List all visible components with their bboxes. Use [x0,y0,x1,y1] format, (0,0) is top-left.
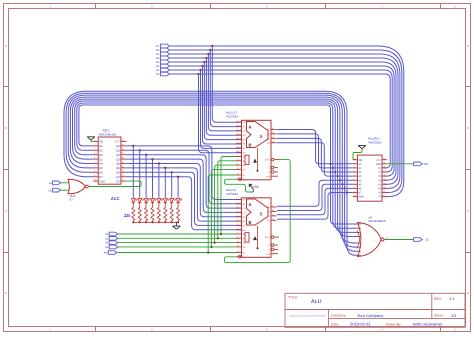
svg-text:12: 12 [237,245,239,248]
svg-text:13: 13 [237,173,239,176]
svg-text:3: 3 [354,227,355,230]
svg-text:D5: D5 [99,167,103,170]
svg-text:ALUOUT: ALUOUT [368,137,380,141]
svg-text:12: 12 [237,167,239,170]
svg-text:Your Company: Your Company [357,313,383,318]
svg-text:TITLE:: TITLE: [288,295,298,299]
svg-text:+5V: +5V [253,185,260,189]
svg-text:11: 11 [272,214,274,217]
svg-text:8: 8 [353,186,354,189]
svg-text:D2: D2 [156,65,160,68]
svg-text:S2: S2 [105,242,109,245]
svg-text:16: 16 [383,174,385,177]
svg-text:Q4: Q4 [116,163,120,166]
svg-text:1/1: 1/1 [451,314,456,318]
svg-text:D7: D7 [156,45,160,48]
wire ALUOUT OE to ground [353,149,362,160]
svg-text:D5: D5 [156,53,160,56]
wire OR gate to ACC CP [88,181,141,186]
svg-text:6: 6 [237,219,238,222]
svg-text:S1: S1 [105,237,109,240]
svg-text:4: 4 [237,133,238,136]
ALU LO 74LS181 [242,120,272,180]
svg-text:20: 20 [383,157,385,160]
svg-text:LA: LA [49,182,52,185]
svg-text:3: 3 [237,206,238,209]
svg-text:10: 10 [272,209,274,212]
LED LED1 [139,196,141,199]
svg-text:74LS181: 74LS181 [226,114,238,118]
svg-text:6: 6 [353,178,354,181]
svg-text:OE: OE [358,159,362,162]
svg-text:Q2: Q2 [116,154,120,157]
svg-text:5: 5 [353,174,354,177]
LED LED4 [158,196,160,199]
svg-text:A=B: A=B [266,175,271,178]
svg-text:6: 6 [237,141,238,144]
svg-text:CK: CK [48,189,52,192]
+5V power flag [252,189,254,192]
svg-text:S0: S0 [105,233,109,236]
resistor R2 220 [145,207,148,220]
svg-text:5: 5 [354,235,355,238]
svg-text:4: 4 [354,231,355,234]
wire S/M to ALU HI and branch up to ALU LO [118,233,237,235]
svg-text:2: 2 [237,124,238,127]
resistor R3 220 [151,207,154,220]
svg-text:4: 4 [353,170,354,173]
wire LED common rail [133,221,178,223]
svg-text:GND: GND [99,180,105,183]
svg-text:74HC541N: 74HC541N [368,141,381,144]
svg-text:13: 13 [383,186,385,189]
svg-text:U6: U6 [369,217,373,220]
svg-text:Q7: Q7 [116,176,120,179]
resistor R7 220 [177,207,180,220]
svg-text:220: 220 [124,213,131,218]
svg-text:Company:: Company: [331,314,347,318]
svg-text:12: 12 [272,140,274,143]
wire ALU LO F outputs to ALUOUT A0-A3 [277,130,353,164]
svg-text:REV:: REV: [434,297,442,301]
svg-text:AM: AM [104,252,108,255]
svg-text:D7: D7 [99,176,103,179]
svg-text:OE: OE [99,141,103,144]
svg-text:VCC: VCC [114,141,120,144]
svg-text:S: S [260,134,263,139]
netport ZERO [414,238,423,242]
ground at LED rail [175,222,177,226]
svg-text:S3: S3 [105,246,109,249]
svg-text:ACC: ACC [103,129,110,133]
svg-text:6: 6 [354,242,355,245]
svg-text:easyeda.com/nicewarner/alu-kei: easyeda.com/nicewarner/alu-keith [289,315,326,318]
svg-text:OE2: OE2 [376,163,382,166]
svg-text:11: 11 [272,136,274,139]
svg-text:keith.nicewarner: keith.nicewarner [413,322,443,327]
svg-text:A: A [5,44,7,48]
svg-text:ZE: ZE [426,239,430,242]
svg-text:D2: D2 [99,154,103,157]
title block [285,293,465,327]
svg-text:2019-02-02: 2019-02-02 [350,322,371,327]
svg-text:14: 14 [383,182,385,185]
svg-text:Q0: Q0 [116,145,120,148]
svg-text:Q3: Q3 [116,158,120,161]
svg-text:B: B [467,126,469,130]
svg-text:D4: D4 [99,163,103,166]
svg-text:7: 7 [354,246,355,249]
svg-text:Q5: Q5 [116,167,120,170]
S/M netports [109,232,118,236]
svg-text:M: M [243,174,245,177]
svg-text:Sheet:: Sheet: [434,314,444,318]
wire NOR output to ZERO netport [384,239,413,241]
svg-text:D1: D1 [99,150,103,153]
svg-text:GND: GND [358,196,364,199]
wire LA to gate [61,182,70,184]
svg-text:10: 10 [237,236,239,239]
ALU HI 74LS181 [242,198,272,257]
svg-text:Q6: Q6 [116,172,120,175]
svg-text:15: 15 [383,178,385,181]
wire F bus horizontal [64,91,358,255]
svg-text:Date:: Date: [331,322,339,326]
svg-text:11: 11 [237,240,239,243]
svg-text:Cn+4: Cn+4 [265,159,271,162]
resistor R4 220 [157,207,160,220]
D bus netports [161,44,170,48]
svg-text:2: 2 [237,201,238,204]
svg-text:11: 11 [237,163,239,166]
svg-text:74HC574N,652: 74HC574N,652 [98,133,117,136]
wire +5V to ALU LO Cn [224,179,253,192]
ALU LO symbol polygon [247,122,269,148]
svg-text:7: 7 [237,146,238,149]
svg-text:Q1: Q1 [116,150,120,153]
svg-text:M: M [243,252,245,255]
svg-text:8: 8 [354,250,355,253]
svg-text:17: 17 [383,170,385,173]
svg-text:1: 1 [353,157,354,160]
svg-text:G: G [268,244,270,247]
svg-text:12: 12 [383,190,385,193]
resistor R1 220 [138,207,141,220]
svg-text:9: 9 [272,127,273,130]
svg-text:9: 9 [237,154,238,157]
svg-text:10: 10 [237,158,239,161]
svg-text:10: 10 [353,194,355,197]
LED LED5 [164,196,166,199]
wire carry ALU LO Cn+4 to ALU HI Cn [224,160,290,263]
netport ALU out enable [414,162,423,166]
netport LA [53,181,61,185]
ground at ACC OE [87,136,95,138]
resistor R0 220 [132,207,135,220]
svg-text:2: 2 [354,223,355,226]
svg-text:Cn+4: Cn+4 [265,236,271,239]
svg-text:D6: D6 [99,172,103,175]
svg-text:8: 8 [237,227,238,230]
svg-text:5: 5 [237,137,238,140]
svg-text:WO: WO [424,163,428,166]
ALU HI symbol polygon [247,199,269,225]
svg-text:U7: U7 [69,199,73,202]
netport CK [53,188,61,192]
wire D bus drop to ALU LO inputs [212,46,241,122]
svg-text:A: A [467,44,469,48]
resistor R5 220 [164,207,167,220]
svg-text:D6: D6 [156,49,160,52]
gate body [68,179,85,194]
svg-text:4: 4 [237,210,238,213]
svg-text:10: 10 [272,132,274,135]
svg-text:13: 13 [237,250,239,253]
wire ALU HI F outputs to ALUOUT A4-A7 [277,180,353,206]
register ACC 74HC574N [98,137,121,184]
svg-text:9: 9 [354,254,355,257]
svg-text:B: B [249,143,252,148]
svg-text:7: 7 [237,223,238,226]
svg-text:G: G [268,167,270,170]
ground at ALUOUT OE [358,145,366,147]
svg-text:11: 11 [383,194,385,197]
svg-text:3: 3 [353,166,354,169]
wire ALUOUT OE2 to netport [387,163,414,165]
svg-text:12: 12 [272,218,274,221]
svg-text:1: 1 [237,197,238,200]
junction dots on D bus [211,45,213,47]
svg-text:D1: D1 [156,69,160,72]
svg-text:9: 9 [272,205,273,208]
svg-text:8: 8 [237,150,238,153]
svg-text:D3: D3 [156,61,160,64]
svg-text:3: 3 [237,128,238,131]
svg-text:1.1: 1.1 [449,297,454,301]
svg-text:Drawn By:: Drawn By: [386,322,402,326]
svg-text:74LS181: 74LS181 [226,192,238,196]
svg-text:A: A [249,124,252,129]
svg-text:A: A [249,202,252,207]
svg-text:5: 5 [237,214,238,217]
svg-text:9: 9 [237,232,238,235]
wire CK to gate [61,189,70,191]
svg-text:MC14078BCP: MC14078BCP [369,220,386,223]
svg-text:D4: D4 [156,57,160,60]
svg-text:ACC: ACC [111,196,120,201]
svg-text:VCC: VCC [376,159,381,162]
svg-text:S: S [260,212,263,217]
svg-text:7: 7 [353,182,354,185]
LED LED7 [177,196,179,199]
junction dots ACC Q to LED columns [132,145,134,147]
svg-text:D0: D0 [99,145,103,148]
svg-text:9: 9 [353,190,354,193]
resistor R6 220 [170,207,173,220]
buffer ALUOUT 74HC541N [357,155,382,201]
svg-text:CP: CP [116,180,120,183]
svg-text:ALU: ALU [311,299,322,305]
svg-text:B: B [5,126,7,130]
LED LED3 [152,196,154,199]
svg-text:1: 1 [237,120,238,123]
LED LED6 [171,196,173,199]
svg-text:18: 18 [383,166,385,169]
LED LED2 [145,196,147,199]
wire ACC Q outputs to ALU HI inputs [126,146,241,200]
svg-text:D0: D0 [156,73,160,76]
svg-text:19: 19 [383,161,385,164]
svg-text:B: B [249,220,252,225]
LED LED0 [132,196,134,199]
svg-text:2: 2 [353,161,354,164]
svg-text:D3: D3 [99,158,103,161]
svg-text:A=B: A=B [266,253,271,256]
wire D bus horizontal+right bend to ALUOUT Y [170,46,404,197]
